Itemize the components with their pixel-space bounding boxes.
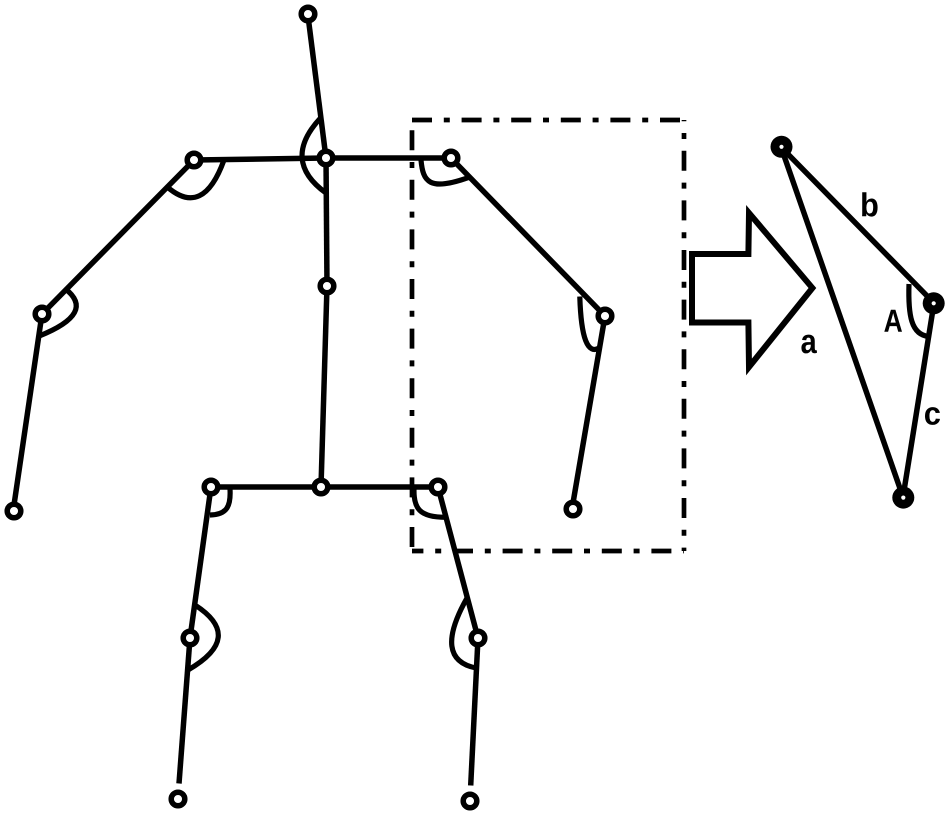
arc right knee angle <box>452 598 476 668</box>
wire triangle side a <box>781 147 903 497</box>
wire right forearm <box>573 316 605 503</box>
node left knee <box>183 631 197 645</box>
wire right shin <box>471 638 478 786</box>
wire rect left edge <box>410 120 415 551</box>
wire left pelvis <box>211 484 321 490</box>
wire triangle side b <box>781 147 934 303</box>
node triangle shoulder vertex <box>771 136 793 158</box>
arc left knee angle <box>188 605 218 670</box>
wire rect bottom edge <box>412 549 684 554</box>
arc angle A <box>909 284 929 337</box>
label a <box>801 335 816 354</box>
arc left hip angle <box>210 489 230 515</box>
dash-dot selection rectangle <box>412 120 684 551</box>
node left hand <box>7 504 21 518</box>
wire spine lower <box>321 286 327 487</box>
block arrow <box>692 213 812 367</box>
wire right upper arm <box>451 158 605 316</box>
node left hip <box>204 480 218 494</box>
node left shoulder <box>187 153 201 167</box>
arc right hip angle <box>414 489 446 517</box>
wire rect top edge <box>412 118 684 123</box>
wire right clavicle <box>326 155 451 161</box>
node left elbow <box>35 307 49 321</box>
label b <box>862 192 877 216</box>
node right hand <box>566 502 580 516</box>
wire spine upper <box>326 158 327 286</box>
node right hip <box>431 480 445 494</box>
node right shoulder <box>444 151 458 165</box>
node mid spine <box>320 279 334 293</box>
node pelvis <box>314 480 328 494</box>
arc right elbow angle <box>580 297 600 350</box>
node head <box>301 7 315 21</box>
wire head-neck <box>308 16 326 158</box>
label c <box>925 407 940 425</box>
label A <box>884 310 902 332</box>
node left foot <box>171 792 185 806</box>
wire left forearm <box>14 314 42 505</box>
wire left thigh <box>190 487 211 638</box>
node neck <box>319 151 333 165</box>
wire right thigh <box>438 487 478 638</box>
node right elbow <box>598 309 612 323</box>
wire left shin <box>179 638 190 784</box>
node right knee <box>471 631 485 645</box>
arc right shoulder angle <box>421 160 469 184</box>
wire left clavicle <box>194 158 326 160</box>
node triangle hand vertex <box>892 487 914 509</box>
node triangle elbow vertex <box>923 292 945 314</box>
arc left elbow angle <box>39 288 76 336</box>
arc left shoulder angle <box>167 160 224 198</box>
node right foot <box>463 794 477 808</box>
arc neck angle <box>302 118 326 193</box>
wire rect right edge <box>682 120 687 551</box>
wire right pelvis <box>321 484 438 490</box>
wire triangle side c <box>903 303 934 497</box>
wire left upper arm <box>42 160 194 314</box>
